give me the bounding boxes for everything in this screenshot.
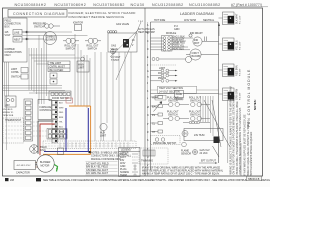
thermostat dotted field wires bbox=[5, 122, 47, 138]
interlock box red bbox=[66, 98, 73, 103]
svg-text:NCU3070080H2: NCU3070080H2 bbox=[54, 3, 86, 7]
svg-text:M: M bbox=[147, 107, 149, 109]
wire code table bbox=[86, 162, 109, 175]
svg-text:CONNECTIONS BEFORE OPERATING T: CONNECTIONS BEFORE OPERATING THE FURNACE… bbox=[239, 107, 242, 174]
svg-text:BE CLOSED: BE CLOSED bbox=[50, 69, 64, 72]
ladder left rail bbox=[150, 22, 152, 170]
svg-text:GRN ORN: GRN ORN bbox=[235, 88, 238, 100]
transformer arrow and box bbox=[46, 151, 56, 153]
gas valve coil ladder bbox=[183, 121, 210, 124]
svg-text:SWITCH: SWITCH bbox=[11, 76, 21, 79]
blower motor ladder bbox=[186, 49, 219, 60]
svg-text:24 VAC: 24 VAC bbox=[200, 152, 208, 155]
svg-text:HEAT BLU: HEAT BLU bbox=[173, 47, 185, 50]
24v rung labels bbox=[151, 96, 163, 134]
svg-text:PRESS: PRESS bbox=[158, 77, 167, 80]
left notes text block bbox=[3, 109, 14, 117]
combustion blower motor bbox=[44, 32, 57, 45]
line terminal box bbox=[13, 30, 22, 36]
svg-text:FAN CONTROL MODULE: FAN CONTROL MODULE bbox=[247, 69, 251, 127]
svg-text:#7 (Part # 100077!): #7 (Part # 100077!) bbox=[231, 3, 262, 7]
svg-text:TWINNING: TWINNING bbox=[141, 160, 153, 163]
wire verticals from gas valve bbox=[94, 52, 96, 141]
long diagonal wires bbox=[204, 100, 230, 147]
svg-text:24V: 24V bbox=[6, 104, 11, 107]
gas valve coil bbox=[107, 31, 137, 52]
svg-text:SWITCH: SWITCH bbox=[88, 48, 98, 51]
right rail arrow bbox=[218, 25, 220, 36]
wire line neutral bbox=[22, 38, 44, 40]
svg-text:BLOWER: BLOWER bbox=[45, 39, 56, 42]
flame sensor connector circle bbox=[193, 150, 198, 155]
svg-text:NEUTRAL: NEUTRAL bbox=[203, 19, 215, 22]
divider line between diagrams bbox=[144, 8, 146, 176]
svg-text:HT: HT bbox=[152, 131, 156, 134]
svg-text:WIRING TO: WIRING TO bbox=[3, 112, 14, 114]
rotated notes text bbox=[229, 86, 253, 175]
pull out switch 1 bbox=[163, 102, 189, 106]
bottom right tag bbox=[247, 176, 262, 181]
svg-text:P-3 24V: P-3 24V bbox=[240, 68, 242, 76]
dashed junction box bottom bbox=[43, 141, 136, 149]
svg-text:208: 208 bbox=[10, 179, 15, 182]
svg-text:NCU3100080B2: NCU3100080B2 bbox=[189, 3, 221, 7]
svg-text:LIMIT: LIMIT bbox=[100, 135, 107, 138]
gas valve box bbox=[108, 33, 137, 52]
eft output arrow bbox=[213, 146, 220, 157]
svg-text:YEL BLU: YEL BLU bbox=[235, 40, 238, 50]
aux limit box bbox=[77, 57, 89, 72]
wires crossing diagonally bbox=[110, 22, 141, 80]
mid terminal boxes bbox=[50, 73, 57, 84]
svg-text:T-STAT: T-STAT bbox=[111, 59, 119, 62]
svg-text:SENSOR: SENSOR bbox=[181, 153, 191, 156]
ladder rung letters bbox=[147, 24, 149, 167]
hum connector blob bbox=[214, 137, 220, 144]
svg-text:CONTROL: CONTROL bbox=[40, 109, 52, 112]
svg-text:DOOR SWITCH: DOOR SWITCH bbox=[52, 97, 70, 100]
svg-text:DISCONNECT BEFORE SERVICING: DISCONNECT BEFORE SERVICING bbox=[69, 15, 125, 19]
thermostat dashed box bbox=[3, 118, 24, 143]
svg-text:BLOWR: BLOWR bbox=[192, 55, 201, 58]
svg-text:THERMOSTAT: THERMOSTAT bbox=[5, 119, 22, 122]
right bundle verticals bbox=[201, 96, 214, 136]
svg-text:P-1 115V: P-1 115V bbox=[240, 15, 242, 24]
svg-text:MOTOR: MOTOR bbox=[41, 165, 50, 168]
connector plug J3 bbox=[223, 64, 242, 77]
auto gas valve circle bbox=[100, 123, 107, 130]
pull out switch 4 bbox=[191, 116, 210, 120]
svg-text:WITH GROMMETS WHERE REQUIRED: WITH GROMMETS WHERE REQUIRED bbox=[250, 132, 253, 176]
svg-text:24V HUM: 24V HUM bbox=[194, 134, 204, 137]
notes column lines bbox=[227, 100, 229, 163]
pressure switch dashed ladder bbox=[151, 136, 181, 145]
flame sensor bbox=[111, 49, 116, 54]
control board edge connectors bbox=[52, 101, 58, 143]
svg-text:EFT OUTPUT: EFT OUTPUT bbox=[201, 160, 217, 163]
svg-text:SWITCH: SWITCH bbox=[168, 100, 178, 103]
pull out switch 3 bbox=[163, 116, 189, 120]
svg-text:HOT SIDE: HOT SIDE bbox=[154, 19, 166, 22]
svg-text:NCU3075080B2: NCU3075080B2 bbox=[93, 3, 125, 7]
left limit switch boxes bbox=[21, 68, 28, 80]
svg-text:24V FIELD: 24V FIELD bbox=[3, 109, 13, 111]
pressure switch contacts bbox=[45, 24, 49, 28]
svg-text:P-2 115V: P-2 115V bbox=[240, 41, 242, 50]
gas valve terminal block bbox=[123, 39, 129, 48]
ladder right rail bbox=[218, 22, 220, 163]
rollout switch B contacts bbox=[88, 38, 93, 43]
svg-text:SWITCH: SWITCH bbox=[168, 114, 178, 117]
top rung bbox=[151, 21, 219, 23]
run capacitor bbox=[14, 161, 36, 170]
transformer bbox=[30, 145, 39, 154]
svg-text:P-4 24V: P-4 24V bbox=[240, 92, 242, 100]
aux rung dashed bbox=[151, 64, 177, 66]
connection diagram header box bbox=[8, 10, 67, 18]
svg-text:CAPACITOR: CAPACITOR bbox=[16, 172, 30, 175]
svg-text:VOLT: VOLT bbox=[5, 34, 12, 37]
interlock rung rows bbox=[151, 69, 177, 82]
svg-text:LINE: LINE bbox=[14, 32, 20, 35]
svg-text:NCU3125080B2: NCU3125080B2 bbox=[152, 3, 184, 7]
legend box bbox=[119, 148, 141, 177]
svg-text:NEUT: NEUT bbox=[14, 39, 21, 42]
rail contact pair bbox=[152, 58, 186, 61]
svg-text:BLK WHT: BLK WHT bbox=[235, 13, 238, 24]
svg-text:J: J bbox=[147, 83, 148, 85]
svg-text:LIMIT: LIMIT bbox=[78, 67, 85, 70]
svg-text:RED: RED bbox=[59, 112, 64, 114]
ignitor box bbox=[75, 25, 82, 31]
main border frame bbox=[3, 8, 263, 176]
connector stub wires bbox=[219, 18, 223, 94]
svg-text:IGNITOR: IGNITOR bbox=[73, 22, 83, 25]
svg-text:GRN: GRN bbox=[174, 28, 180, 31]
svg-text:GAS VALVE: GAS VALVE bbox=[116, 23, 129, 26]
wire line hot bbox=[22, 32, 46, 35]
svg-text:WHT: WHT bbox=[59, 107, 64, 109]
twinning connector strip bbox=[143, 150, 155, 156]
pull out switch 2 bbox=[191, 102, 210, 106]
svg-text:HUM: HUM bbox=[152, 96, 157, 99]
svg-text:MOT: MOT bbox=[194, 42, 200, 45]
svg-text:HAVING A TEMP RATING OF AT LEA: HAVING A TEMP RATING OF AT LEAST 105 C -… bbox=[142, 173, 220, 176]
svg-text:BOX: BOX bbox=[5, 26, 10, 29]
module plug connector bbox=[151, 36, 194, 52]
small connector box upper-left bbox=[5, 96, 16, 107]
svg-text:NBK012-B: NBK012-B bbox=[248, 178, 260, 181]
svg-text:G: G bbox=[147, 71, 149, 73]
svg-text:PRESSURE SWITCH: PRESSURE SWITCH bbox=[153, 142, 177, 145]
svg-text:SWITCH: SWITCH bbox=[34, 26, 44, 29]
svg-text:SWITCH: SWITCH bbox=[66, 48, 76, 51]
svg-text:NCU3000804H2: NCU3000804H2 bbox=[15, 3, 47, 7]
svg-text:TERM: TERM bbox=[120, 174, 127, 177]
capacitor leads bbox=[36, 163, 39, 168]
furnace control board bbox=[38, 100, 52, 120]
thermostat terminal grid bbox=[47, 129, 67, 140]
blower door switch box bbox=[49, 91, 71, 101]
neutral terminal box bbox=[13, 37, 22, 43]
rollout switch A contacts bbox=[66, 38, 71, 43]
svg-text:BRN: BRN bbox=[59, 117, 64, 119]
svg-text:CNTRL: CNTRL bbox=[11, 71, 20, 74]
svg-text:ONLY: ONLY bbox=[5, 54, 12, 57]
wire blue blower bbox=[44, 108, 88, 152]
wire bundle mid verticals bbox=[74, 34, 76, 106]
hum 24v box bbox=[184, 129, 223, 141]
svg-text:NCU30: NCU30 bbox=[131, 3, 145, 7]
svg-text:TSTAT SUB: TSTAT SUB bbox=[3, 114, 14, 117]
transformer ladder bbox=[151, 91, 219, 101]
connector plug J4 bbox=[223, 88, 242, 101]
inducer motor bbox=[189, 34, 219, 46]
svg-text:ROLLOUT: ROLLOUT bbox=[158, 72, 170, 75]
svg-text:SWITCH: SWITCH bbox=[190, 114, 200, 117]
gas valve circle ladder bbox=[182, 131, 188, 137]
svg-text:RED BRN: RED BRN bbox=[235, 65, 238, 76]
svg-text:SWITCH: SWITCH bbox=[190, 100, 200, 103]
wire red blower bbox=[40, 124, 55, 155]
section divider text bbox=[158, 86, 197, 93]
left border wires bbox=[4, 62, 6, 96]
svg-text:115V 60HZ: 115V 60HZ bbox=[184, 19, 196, 22]
svg-text:7 5-2: 7 5-2 bbox=[138, 21, 144, 23]
field connection box bbox=[4, 18, 28, 62]
svg-text:CONNECTION DIAGRAM: CONNECTION DIAGRAM bbox=[13, 12, 65, 16]
svg-text:LADDER DIAGRAM: LADDER DIAGRAM bbox=[180, 12, 214, 16]
wire arrows bbox=[26, 31, 29, 33]
harness wire bundle left bbox=[3, 32, 131, 150]
svg-text:BLK: BLK bbox=[59, 103, 63, 105]
svg-text:40/5 MFD 370V: 40/5 MFD 370V bbox=[17, 165, 32, 167]
disconnect arrow bbox=[154, 102, 162, 112]
wire black blower bbox=[38, 121, 54, 154]
wire orange bbox=[43, 106, 91, 154]
ground wire green bbox=[54, 165, 57, 172]
svg-text:MANUAL FOR MORE INFO: MANUAL FOR MORE INFO bbox=[91, 158, 121, 161]
bottom caption row bbox=[5, 178, 9, 181]
connector plug J1 bbox=[223, 12, 242, 25]
svg-text:LIMIT: LIMIT bbox=[159, 67, 166, 70]
svg-text:NOTES:: NOTES: bbox=[253, 99, 257, 110]
svg-text:40VA: 40VA bbox=[40, 149, 46, 152]
svg-text:SEE TABLE IN MANUAL FOR C: SEE TABLE IN MANUAL FOR CLEARANCES TO CO… bbox=[43, 179, 270, 182]
capacitor circle bbox=[186, 57, 192, 63]
blower motor bbox=[37, 155, 54, 172]
low voltage terminal strip bbox=[24, 99, 33, 141]
svg-text:FS: FS bbox=[152, 114, 155, 117]
limit control box bbox=[48, 61, 70, 72]
svg-text:BLU: BLU bbox=[59, 127, 63, 129]
harness horizontal runs bbox=[29, 54, 75, 56]
svg-text:LEGEND: LEGEND bbox=[121, 149, 131, 152]
connector plug J2 bbox=[223, 38, 242, 51]
